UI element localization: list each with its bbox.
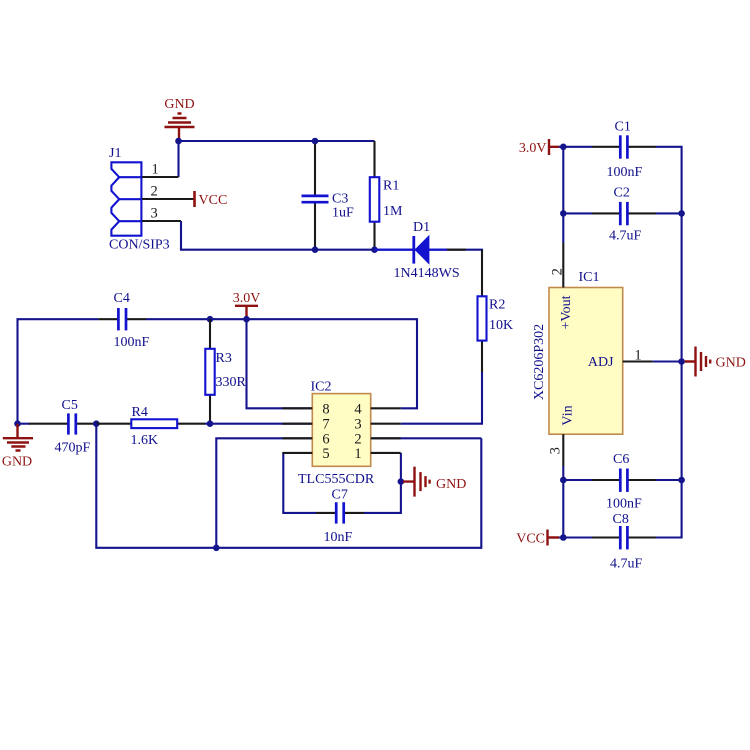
svg-text:2: 2 [354, 431, 361, 447]
node VCC on pin column [560, 534, 567, 541]
wire ADJ to right bus [653, 360, 682, 362]
capacitor C7 [316, 488, 364, 546]
wire C6 right stub to bus [656, 479, 682, 481]
node C3 bottom on bus [312, 246, 319, 253]
wire C2 row left stub [563, 212, 592, 214]
ground GND (top, above J1 net) [164, 97, 194, 141]
pin 1 of J1 [142, 176, 179, 178]
svg-text:TLC555CDR: TLC555CDR [298, 472, 375, 487]
wire C6 row [563, 479, 592, 481]
svg-text:3: 3 [151, 206, 158, 222]
svg-text:C2: C2 [614, 186, 630, 201]
wire IC2 pin1 down to C7 row [364, 453, 401, 513]
capacitor C2 [592, 186, 656, 244]
wire GND row: left gnd to C5 [18, 423, 31, 425]
svg-text:CON/SIP3: CON/SIP3 [109, 238, 170, 253]
node ADJ on right bus [678, 358, 685, 365]
svg-text:1N4148WS: 1N4148WS [394, 266, 460, 281]
wire C2 right stub to bus [656, 212, 682, 214]
svg-text:IC2: IC2 [311, 380, 332, 395]
svg-text:10nF: 10nF [324, 530, 353, 545]
power port 3.0V (right) [519, 139, 559, 156]
IC U1 XC6206P302 body [532, 270, 623, 434]
svg-text:3: 3 [354, 417, 361, 433]
svg-text:C8: C8 [613, 512, 629, 527]
svg-text:IC1: IC1 [579, 270, 600, 285]
svg-text:C6: C6 [613, 452, 629, 467]
svg-text:ADJ: ADJ [588, 355, 614, 370]
wire J1 pin3 down to bottom bus [181, 221, 315, 250]
svg-text:100nF: 100nF [114, 335, 150, 350]
diode D1 1N4148WS [375, 220, 467, 281]
svg-text:100nF: 100nF [607, 165, 643, 180]
wire R2 bottom to IC2 pin3 row [401, 372, 482, 424]
wire R4 right to R3 node and IC2 pin7 [205, 423, 311, 425]
svg-text:D1: D1 [413, 220, 430, 235]
svg-text:GND: GND [2, 455, 32, 470]
capacitor C6 [592, 452, 656, 512]
node R3 bottom on pin7 row [207, 420, 214, 427]
svg-text:5: 5 [322, 446, 329, 462]
ground GND (left) [2, 424, 33, 470]
node C6 row on right bus [678, 477, 685, 484]
capacitor C1 [592, 120, 656, 181]
svg-text:Vin: Vin [561, 405, 576, 425]
svg-text:C4: C4 [114, 291, 130, 306]
node pin6 drop on bottom bus [213, 545, 220, 552]
pin 2 of IC1 [562, 243, 564, 288]
svg-text:GND: GND [716, 356, 746, 371]
svg-text:R3: R3 [216, 351, 232, 366]
wire top bus from GND node to R1 column [179, 140, 375, 142]
svg-text:4.7uF: 4.7uF [610, 557, 643, 572]
svg-text:1: 1 [634, 348, 641, 364]
svg-text:R4: R4 [132, 405, 148, 420]
svg-text:R2: R2 [489, 298, 505, 313]
node C3 top on bus [312, 138, 319, 145]
power port VCC (at J1 pin 2) [195, 191, 228, 208]
power port VCC (right) [516, 530, 559, 547]
wire IC2 pin2 right [371, 437, 482, 439]
wire C8 row left [559, 536, 592, 538]
node 3.0V / pin2 column [560, 144, 567, 151]
svg-text:3.0V: 3.0V [519, 141, 547, 156]
resistor R1 [370, 141, 403, 250]
node left gnd [14, 420, 21, 427]
svg-text:330R: 330R [216, 375, 247, 390]
node C6 row left [560, 477, 567, 484]
wire IC2 pin5 down to C7 row [283, 453, 316, 513]
wire pin2 column down [562, 147, 564, 243]
pin 6 of IC2 [282, 437, 312, 439]
IC U2 TLC555CDR body [298, 380, 375, 488]
svg-text:3.0V: 3.0V [233, 291, 261, 306]
pin 7 of IC2 [282, 423, 312, 425]
svg-text:10K: 10K [489, 318, 513, 333]
svg-text:1.6K: 1.6K [131, 433, 159, 448]
wire C5 node down to bottom bus [96, 424, 481, 548]
svg-text:C7: C7 [332, 488, 348, 503]
svg-text:+Vout: +Vout [559, 295, 574, 329]
pin 3 of J1 [142, 220, 181, 222]
pin 3 of IC1 [562, 434, 564, 466]
svg-text:1: 1 [152, 162, 159, 178]
wire 3.0V node to C1 [559, 146, 592, 148]
node C5/R4 junction [93, 420, 100, 427]
wire C4 right to 3.0V node and IC2 pin4 loop [146, 319, 417, 408]
svg-text:2: 2 [151, 184, 158, 200]
svg-text:8: 8 [322, 401, 329, 417]
pin 2 of IC2 [371, 437, 401, 439]
svg-text:1: 1 [354, 446, 361, 462]
pin 4 of IC2 [371, 407, 401, 409]
wire IC2 pin8 to 3.0V node [247, 319, 312, 408]
svg-text:470pF: 470pF [55, 441, 91, 456]
node R3 top on C4 row [207, 316, 214, 323]
wire left loop C4 row [18, 319, 99, 424]
svg-text:4.7uF: 4.7uF [609, 229, 642, 244]
wire right bus vertical [656, 147, 682, 538]
svg-text:1uF: 1uF [332, 206, 354, 221]
resistor R3 [205, 319, 246, 424]
node C2 row on right bus [678, 210, 685, 217]
pin 8 of IC2 [282, 407, 312, 409]
node junction at GND/top bus [175, 138, 182, 145]
svg-text:C3: C3 [332, 192, 348, 207]
svg-text:C5: C5 [62, 398, 78, 413]
power port 3.0V (left) [233, 291, 261, 319]
svg-text:C1: C1 [615, 120, 631, 135]
svg-text:XC6206P302: XC6206P302 [532, 324, 547, 400]
svg-text:R1: R1 [383, 179, 399, 194]
svg-text:GND: GND [164, 97, 194, 112]
resistor R2 [478, 250, 514, 372]
capacitor C4 [98, 291, 149, 350]
svg-text:4: 4 [354, 401, 362, 417]
capacitor C5 [29, 398, 96, 456]
svg-text:VCC: VCC [199, 193, 228, 208]
ground GND (right of IC1) [685, 347, 746, 377]
connector J1 CON/SIP3 [109, 146, 170, 253]
node C2 row on pin2 column [560, 210, 567, 217]
pin 1 of IC2 [371, 452, 401, 454]
node IC2 pin1 / GND junction [398, 478, 405, 485]
wire IC2 pin6 left and down to bus [216, 438, 311, 548]
wire bottom bus C3 to R2 column [315, 250, 482, 251]
capacitor C3 [302, 141, 355, 250]
svg-text:6: 6 [322, 431, 329, 447]
pin 5 of IC2 [282, 452, 312, 454]
pin 2 of J1 [142, 198, 194, 200]
svg-text:100nF: 100nF [606, 497, 642, 512]
ground GND (at IC2 pin1) [403, 467, 466, 497]
svg-text:VCC: VCC [516, 532, 545, 547]
svg-text:3: 3 [548, 447, 564, 454]
svg-text:2: 2 [550, 268, 566, 275]
node 3.0V on C4 row [243, 316, 250, 323]
capacitor C8 [592, 512, 656, 572]
svg-text:GND: GND [436, 477, 466, 492]
svg-text:1M: 1M [383, 204, 403, 219]
svg-text:7: 7 [322, 417, 329, 433]
resistor R4 [96, 405, 205, 448]
wire GND node down to J1 pin1 [177, 141, 179, 177]
pin 3 of IC2 [371, 423, 401, 425]
pin 1 of IC1 (ADJ) [623, 360, 653, 362]
wire pin3 to C6 row [562, 466, 564, 538]
svg-text:J1: J1 [109, 146, 121, 161]
node R1 bottom on bus [371, 246, 378, 253]
